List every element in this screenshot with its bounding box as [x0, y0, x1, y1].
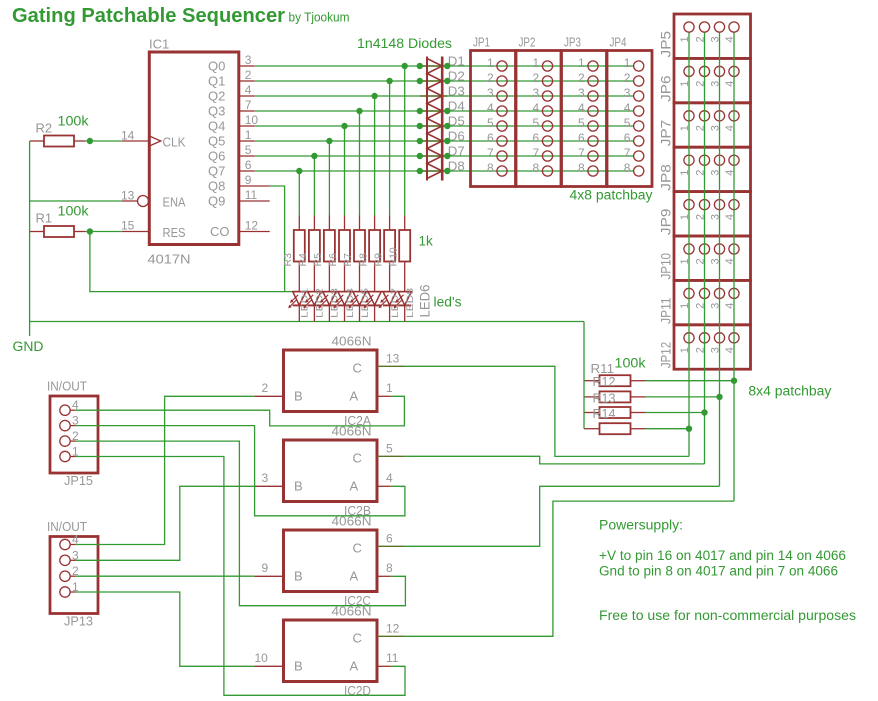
JP15 pin 4 stub	[70, 409, 75, 411]
JP10 pin 2 octagon	[699, 244, 709, 254]
svg-text:Gating Patchable Sequencer: Gating Patchable Sequencer	[12, 5, 285, 27]
svg-text:JP11: JP11	[659, 297, 674, 324]
svg-text:5: 5	[624, 116, 631, 130]
svg-text:A: A	[350, 658, 359, 673]
svg-text:10: 10	[255, 651, 269, 665]
JP9 pin 2 octagon	[699, 200, 709, 210]
JP15 pin 1 octagon	[60, 451, 70, 461]
svg-text:Q1: Q1	[208, 74, 225, 89]
wire patchbay column 3	[719, 33, 721, 487]
svg-text:C: C	[353, 360, 362, 375]
resistor R9 pins	[389, 216, 391, 231]
JP2 pin 2 octagon	[542, 76, 552, 86]
junction Q4 staircase	[341, 123, 347, 129]
junction diode left	[417, 168, 423, 174]
resistor R5 pins	[328, 216, 330, 231]
svg-text:CO: CO	[210, 224, 230, 239]
diode pin overlap segment	[420, 170, 448, 172]
LED LED8 symbol	[398, 292, 411, 306]
JP4 pin 7 octagon	[634, 151, 644, 161]
JP2 pin 6 octagon	[542, 136, 552, 146]
junction diode left	[417, 138, 423, 144]
svg-text:7: 7	[487, 146, 494, 160]
svg-text:6: 6	[487, 131, 494, 145]
svg-text:2: 2	[245, 68, 252, 82]
JP2 pin 8 octagon	[542, 166, 552, 176]
resistor R13 pins	[584, 412, 600, 414]
svg-text:R3: R3	[282, 253, 294, 267]
JP6 pin 4 octagon	[729, 66, 739, 76]
svg-text:13: 13	[386, 351, 400, 365]
svg-text:4: 4	[487, 101, 494, 115]
IC2B pin stub C overlap	[377, 455, 405, 457]
svg-text:Q4: Q4	[208, 119, 225, 134]
svg-text:8: 8	[386, 561, 393, 575]
diode pin overlap segment	[420, 65, 448, 67]
svg-text:JP7: JP7	[659, 120, 674, 147]
diode pin overlap segment	[420, 110, 448, 112]
svg-text:JP9: JP9	[659, 209, 674, 236]
svg-text:8: 8	[533, 161, 540, 175]
junction R11 column	[731, 378, 737, 384]
svg-text:2: 2	[578, 71, 585, 85]
IC1 pin stub y156	[240, 155, 255, 157]
svg-text:B: B	[294, 568, 303, 583]
IC IC1 4017N body	[149, 52, 239, 245]
JP15 pin 3 stub	[70, 425, 75, 427]
svg-text:5: 5	[386, 441, 393, 455]
svg-text:8x4 patchbay: 8x4 patchbay	[748, 384, 831, 399]
connector JP7 body	[674, 103, 751, 147]
svg-text:5: 5	[533, 116, 540, 130]
svg-text:CLK: CLK	[163, 135, 186, 150]
svg-text:6: 6	[245, 158, 252, 172]
junction diode left	[417, 153, 423, 159]
JP4 pin 5 octagon	[634, 121, 644, 131]
svg-text:GND: GND	[13, 339, 44, 354]
junction Q5 staircase	[326, 138, 332, 144]
svg-text:R5: R5	[312, 253, 324, 267]
JP12 pin 2 octagon	[699, 333, 709, 343]
svg-text:Q7: Q7	[208, 164, 225, 179]
diode pin overlap segment	[420, 80, 448, 82]
junction diode right	[444, 108, 450, 114]
LED LED3 cathode pin	[328, 305, 330, 321]
connector JP4 body	[607, 51, 652, 187]
wire Q6 row	[255, 155, 633, 157]
IC2C pin stub C overlap	[377, 545, 405, 547]
LED LED1 symbol	[293, 292, 306, 306]
JP9 pin 3 octagon	[714, 200, 724, 210]
LED LED1 cathode pin	[298, 305, 300, 321]
connector JP12 body	[674, 325, 751, 369]
diode pin overlap segment	[420, 125, 448, 127]
IC1 pin stub Q9	[240, 200, 270, 202]
IC2C pin stub A	[377, 575, 391, 577]
LED LED3 symbol	[323, 292, 336, 306]
svg-text:Q0: Q0	[208, 59, 225, 74]
svg-text:12: 12	[386, 621, 400, 635]
wire GND feed to R11-R14	[583, 322, 585, 429]
diode pin overlap segment	[420, 95, 448, 97]
JP1 pin 4 octagon	[497, 106, 507, 116]
IC1 CLK wedge	[149, 136, 161, 147]
LED LED6 cathode pin	[374, 305, 376, 321]
JP15 pin 1 stub	[70, 456, 75, 458]
JP7 pin 1 octagon	[684, 111, 694, 121]
JP13 pin 3 octagon	[60, 555, 70, 565]
wire Q5 row	[255, 140, 633, 142]
junction R13 column	[701, 409, 707, 415]
JP15 pin 3 octagon	[60, 420, 70, 430]
svg-text:4066N: 4066N	[332, 334, 372, 349]
wire left vertical bus to GND	[29, 141, 31, 336]
connector JP11 body	[674, 280, 751, 324]
IC1 pin stub CLK	[122, 140, 149, 142]
svg-text:R13: R13	[593, 390, 616, 405]
JP15 pin 2 octagon	[60, 436, 70, 446]
svg-text:3: 3	[245, 53, 252, 67]
IC1 pin stub y96	[240, 95, 255, 97]
svg-text:JP12: JP12	[659, 342, 674, 369]
junction diode right	[444, 153, 450, 159]
connector JP13 body	[50, 537, 98, 614]
JP10 pin 3 octagon	[714, 244, 724, 254]
svg-text:A: A	[350, 478, 359, 493]
wire IC2C C to column 3	[405, 486, 720, 546]
JP13 pin 1 stub	[70, 591, 75, 593]
svg-text:8: 8	[578, 161, 585, 175]
svg-text:3: 3	[533, 86, 540, 100]
JP2 pin 7 octagon	[542, 151, 552, 161]
junction R2 output	[87, 138, 93, 144]
svg-text:6: 6	[624, 131, 631, 145]
diode anode bar line	[441, 57, 444, 181]
svg-text:100k: 100k	[58, 204, 89, 219]
svg-text:C: C	[353, 630, 362, 645]
svg-text:2: 2	[533, 71, 540, 85]
JP6 pin 1 octagon	[684, 66, 694, 76]
resistor R4 body	[309, 230, 320, 262]
connector JP9 body	[674, 192, 751, 236]
svg-text:Free to use for non-commercial: Free to use for non-commercial purposes	[599, 608, 856, 623]
JP6 pin 2 octagon	[699, 66, 709, 76]
diode pin overlap segment	[420, 140, 448, 142]
wire Q3 row	[255, 110, 633, 112]
svg-text:JP2: JP2	[519, 35, 536, 50]
resistor R11 body	[600, 375, 631, 386]
junction R1 output	[87, 228, 93, 234]
diode zigzag triangles D1-D8	[427, 59, 442, 179]
LED LED4 symbol	[338, 292, 351, 306]
JP9 pin 4 octagon	[729, 200, 739, 210]
resistor R11 pins	[584, 380, 600, 382]
junction Q7 staircase	[296, 168, 302, 174]
JP6 pin 3 octagon	[714, 66, 724, 76]
svg-text:2: 2	[624, 71, 631, 85]
JP15 pin 4 octagon	[60, 405, 70, 415]
JP13 pin 3 stub	[70, 559, 75, 561]
connector JP5 body	[674, 14, 751, 58]
resistor R12 pins	[584, 396, 600, 398]
svg-text:LED8: LED8	[405, 288, 415, 318]
LED LED8 cathode pin	[404, 305, 406, 321]
svg-text:2: 2	[487, 71, 494, 85]
svg-text:R10: R10	[387, 247, 399, 266]
junction Q2 staircase	[371, 93, 377, 99]
connector JP2 body	[516, 51, 561, 187]
svg-text:R2: R2	[36, 121, 53, 136]
wire R13 to patchbay column	[646, 412, 705, 414]
JP11 pin 1 octagon	[684, 288, 694, 298]
wire IC2A C to column 1	[405, 366, 689, 456]
svg-text:5: 5	[487, 116, 494, 130]
svg-text:R8: R8	[357, 253, 369, 267]
wire R2 to CLK	[86, 140, 122, 142]
svg-text:Q3: Q3	[208, 104, 225, 119]
resistor R14 pins	[584, 428, 600, 430]
JP1 pin 7 octagon	[497, 151, 507, 161]
wire JP15-1 to IC2D A	[76, 457, 405, 696]
IC1 pin stub y66	[240, 65, 255, 67]
JP10 pin 1 octagon	[684, 244, 694, 254]
svg-text:1: 1	[624, 56, 631, 70]
svg-text:LED6: LED6	[418, 285, 433, 318]
JP5 pin 3 octagon	[714, 22, 724, 32]
svg-text:4x8 patchbay: 4x8 patchbay	[570, 188, 653, 203]
JP2 pin 3 octagon	[542, 91, 552, 101]
JP13 pin 1 octagon	[60, 587, 70, 597]
svg-text:IN/OUT: IN/OUT	[47, 379, 87, 394]
svg-text:9: 9	[245, 173, 252, 187]
LED LED5 symbol	[353, 292, 366, 306]
svg-text:R4: R4	[297, 253, 309, 267]
svg-text:B: B	[294, 658, 303, 673]
svg-text:Q6: Q6	[208, 149, 225, 164]
wire Q3 drop to resistor	[359, 111, 361, 216]
wire Q0 row	[255, 65, 633, 67]
wire R11 to patchbay column	[646, 380, 735, 382]
resistor R10 pins	[404, 216, 406, 231]
resistor R1 pins	[30, 231, 44, 233]
JP12 pin 3 octagon	[714, 333, 724, 343]
JP1 pin 3 octagon	[497, 91, 507, 101]
IC1 pin stub Q8	[240, 185, 270, 187]
JP4 pin 3 octagon	[634, 91, 644, 101]
resistor R6 body	[339, 230, 350, 262]
resistor R10 body	[399, 230, 410, 262]
svg-text:D3: D3	[448, 85, 465, 99]
JP1 pin 8 octagon	[497, 166, 507, 176]
JP3 pin 4 octagon	[588, 106, 598, 116]
svg-text:Q2: Q2	[208, 89, 225, 104]
wire Q1 drop to resistor	[389, 81, 391, 216]
wire Q8 to LED rail	[270, 186, 285, 292]
wire IC2D C to column 4	[405, 501, 734, 636]
resistor R3 body	[294, 230, 305, 262]
wire JP13-3 to IC2B B	[76, 486, 255, 560]
wire R14 to patchbay column	[646, 428, 690, 430]
svg-text:+V to pin 16 on 4017 and pin 1: +V to pin 16 on 4017 and pin 14 on 4066	[599, 548, 846, 563]
svg-text:JP1: JP1	[473, 35, 490, 50]
svg-text:B: B	[294, 388, 303, 403]
JP12 pin 1 octagon	[684, 333, 694, 343]
IC1 pin stub y171	[240, 170, 255, 172]
JP10 pin 4 octagon	[729, 244, 739, 254]
resistor R2 body	[44, 136, 74, 147]
JP13 pin 4 stub	[70, 544, 75, 546]
junction Q3 staircase	[356, 108, 362, 114]
JP8 pin 1 octagon	[684, 155, 694, 165]
svg-text:4017N: 4017N	[148, 252, 191, 267]
svg-text:JP15: JP15	[64, 473, 93, 488]
wire Q0 drop to resistor	[404, 66, 406, 216]
IC2B pin stub A	[377, 485, 391, 487]
JP3 pin 7 octagon	[588, 151, 598, 161]
JP4 pin 6 octagon	[634, 136, 644, 146]
JP8 pin 3 octagon	[714, 155, 724, 165]
wire Q7 row	[255, 170, 633, 172]
svg-text:Q8: Q8	[208, 179, 225, 194]
junction diode right	[444, 78, 450, 84]
JP9 pin 1 octagon	[684, 200, 694, 210]
svg-text:100k: 100k	[58, 114, 89, 129]
JP3 pin 2 octagon	[588, 76, 598, 86]
svg-text:2: 2	[262, 381, 269, 395]
JP8 pin 2 octagon	[699, 155, 709, 165]
IC1 ENA bubble	[138, 196, 149, 207]
wire JP15-3 to IC2B A	[76, 426, 405, 516]
svg-text:10: 10	[245, 113, 259, 127]
JP15 pin 2 stub	[70, 440, 75, 442]
LED LED7 cathode pin	[389, 305, 391, 321]
svg-text:R1: R1	[36, 211, 53, 226]
svg-text:4: 4	[386, 471, 393, 485]
svg-text:JP3: JP3	[564, 35, 581, 50]
svg-text:Q9: Q9	[208, 194, 225, 209]
svg-text:3: 3	[487, 86, 494, 100]
svg-text:4: 4	[624, 101, 631, 115]
wire patchbay column 2	[704, 33, 706, 464]
svg-text:RES: RES	[163, 225, 186, 240]
svg-text:7: 7	[533, 146, 540, 160]
svg-text:1n4148 Diodes: 1n4148 Diodes	[357, 36, 452, 51]
resistor R7 pins	[359, 216, 361, 231]
resistor R4 pins	[313, 216, 315, 231]
svg-text:1: 1	[533, 56, 540, 70]
JP13 pin 2 octagon	[60, 571, 70, 581]
svg-text:1: 1	[487, 56, 494, 70]
IC IC2C 4066 body	[284, 530, 378, 592]
IC1 pin stub y126	[240, 125, 255, 127]
svg-text:7: 7	[578, 146, 585, 160]
IC IC2D 4066 body	[284, 620, 378, 682]
resistor R7 body	[354, 230, 365, 262]
diode cathode bar line	[426, 57, 428, 181]
svg-text:5: 5	[245, 143, 252, 157]
wire R1 junction down to LED rail	[90, 232, 293, 292]
IC2A pin stub B	[254, 395, 283, 397]
svg-text:Q5: Q5	[208, 134, 225, 149]
IC1 pin stub y81	[240, 80, 255, 82]
IC2A pin stub A	[377, 395, 391, 397]
LED LED2 symbol	[308, 292, 321, 306]
svg-text:8: 8	[487, 161, 494, 175]
IC2B pin stub B	[254, 485, 283, 487]
junction diode right	[444, 63, 450, 69]
IC2A pin stub C overlap	[377, 365, 405, 367]
junction Q0 staircase	[402, 63, 408, 69]
IC2D pin stub C overlap	[377, 635, 405, 637]
svg-text:JP5: JP5	[659, 31, 674, 58]
wire Q4 drop to resistor	[344, 126, 346, 216]
JP4 pin 1 octagon	[634, 61, 644, 71]
resistor R5 body	[324, 230, 335, 262]
svg-text:led's: led's	[434, 295, 462, 310]
junction diode right	[444, 123, 450, 129]
JP11 pin 3 octagon	[714, 288, 724, 298]
svg-text:6: 6	[578, 131, 585, 145]
svg-text:R7: R7	[342, 253, 354, 267]
svg-text:C: C	[353, 450, 362, 465]
svg-text:12: 12	[245, 219, 259, 233]
svg-text:1: 1	[386, 381, 393, 395]
svg-text:JP8: JP8	[659, 164, 674, 191]
junction R14 column	[686, 426, 692, 432]
wire patchbay column 1	[688, 33, 690, 457]
wire JP15-2 to IC2C A	[76, 441, 406, 606]
resistor R12 body	[600, 391, 631, 402]
svg-text:JP6: JP6	[659, 75, 674, 102]
wire IC2B C to column 2	[405, 456, 705, 464]
wire R1 to RES	[86, 231, 122, 233]
JP1 pin 2 octagon	[497, 76, 507, 86]
svg-text:Powersupply:: Powersupply:	[599, 518, 683, 533]
svg-text:15: 15	[121, 219, 135, 233]
IC2C pin stub B	[254, 575, 283, 577]
JP1 pin 1 octagon	[497, 61, 507, 71]
JP4 pin 4 octagon	[634, 106, 644, 116]
svg-text:A: A	[350, 388, 359, 403]
junction diode left	[417, 63, 423, 69]
svg-text:1: 1	[245, 128, 252, 142]
svg-text:R6: R6	[327, 253, 339, 267]
svg-text:1k: 1k	[419, 234, 434, 249]
JP3 pin 6 octagon	[588, 136, 598, 146]
JP7 pin 4 octagon	[729, 111, 739, 121]
svg-text:Gnd to pin 8 on 4017 and pin 7: Gnd to pin 8 on 4017 and pin 7 on 4066	[599, 564, 838, 579]
connector JP1 body	[471, 51, 516, 187]
svg-text:9: 9	[262, 561, 269, 575]
JP7 pin 3 octagon	[714, 111, 724, 121]
wire JP13-1 to IC2D B	[76, 592, 255, 666]
resistor R1 body	[44, 226, 74, 237]
svg-text:by Tjookum: by Tjookum	[289, 10, 350, 25]
svg-text:8: 8	[624, 161, 631, 175]
svg-text:7: 7	[624, 146, 631, 160]
resistor R8 body	[369, 230, 380, 262]
JP3 pin 5 octagon	[588, 121, 598, 131]
svg-text:5: 5	[578, 116, 585, 130]
wire JP13-2 to IC2C B	[76, 575, 255, 577]
svg-text:B: B	[294, 478, 303, 493]
JP4 pin 8 octagon	[634, 166, 644, 176]
svg-text:C: C	[353, 540, 362, 555]
JP5 pin 2 octagon	[699, 22, 709, 32]
junction diode right	[444, 138, 450, 144]
JP2 pin 1 octagon	[542, 61, 552, 71]
JP3 pin 1 octagon	[588, 61, 598, 71]
